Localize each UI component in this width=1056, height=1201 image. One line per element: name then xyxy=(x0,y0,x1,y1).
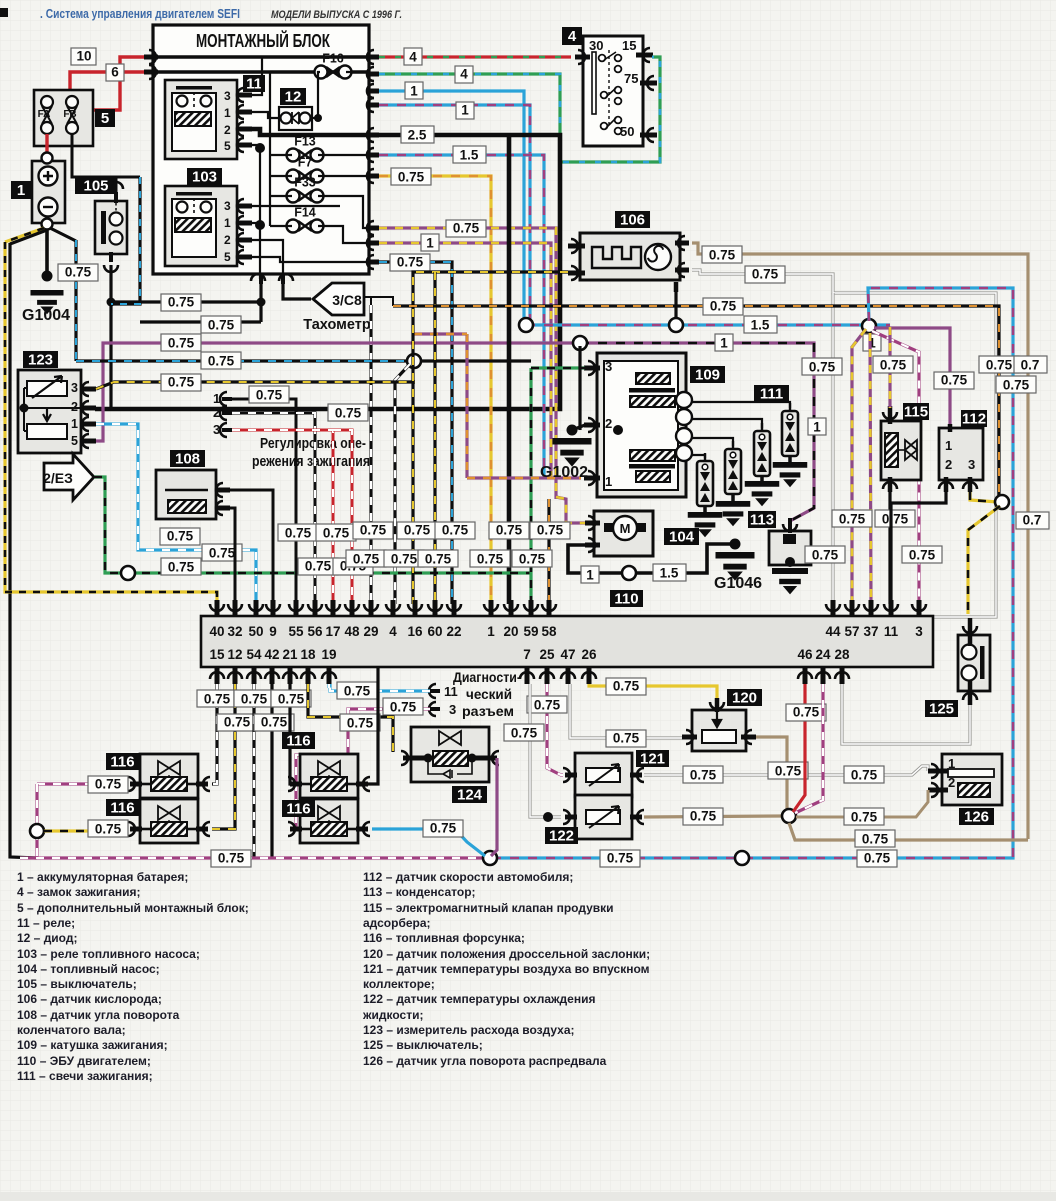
ground G1004 symbol xyxy=(31,290,64,314)
wire pin42 black down xyxy=(270,684,273,858)
fuse F13 xyxy=(287,135,324,162)
fuse FA xyxy=(41,96,53,134)
115 valve symbol xyxy=(905,440,917,460)
wire blue-black horizontal xyxy=(76,359,410,362)
wire 104 bottom loop xyxy=(568,544,731,573)
109 hv terminal 1 xyxy=(676,392,692,408)
label 0.75 above bar 455 xyxy=(435,522,475,539)
svg-text:126 – датчик угла поворота рас: 126 – датчик угла поворота распредвала xyxy=(363,1054,607,1068)
wire purple-yellow block 228 xyxy=(379,228,556,499)
svg-text:. Система управления двигателе: . Система управления двигателем SEFI xyxy=(40,6,240,21)
fuse F16 xyxy=(315,52,352,79)
wire purple-white bottom xyxy=(20,856,483,859)
106 bottom pin stub xyxy=(674,282,679,292)
label 0.75 yellow 120 xyxy=(606,678,646,695)
speed sensor 112 box xyxy=(939,428,983,480)
svg-text:108 – датчик угла поворота: 108 – датчик угла поворота xyxy=(17,1008,180,1022)
wire F33 left xyxy=(270,195,292,197)
svg-text:1.5: 1.5 xyxy=(751,318,770,333)
ground 113 symbol xyxy=(772,568,808,594)
wire green-black to 109 pin3 xyxy=(531,366,585,369)
svg-text:3: 3 xyxy=(224,89,231,103)
wire 106 white out xyxy=(692,270,996,617)
label 125 xyxy=(925,700,958,718)
wire 126 pin2 brown link xyxy=(796,790,928,817)
svg-text:105: 105 xyxy=(83,178,108,195)
ignition coil 109 box xyxy=(597,353,686,497)
svg-text:126: 126 xyxy=(964,809,989,826)
wire pin58 black-orange xyxy=(547,499,550,604)
svg-text:4 – замок зажигания;: 4 – замок зажигания; xyxy=(17,885,141,899)
arrow through 123 resistor xyxy=(32,376,62,398)
svg-text:4: 4 xyxy=(409,50,417,65)
resistor in 123 lower xyxy=(27,424,67,439)
label 0.75 121 right b xyxy=(768,762,808,779)
spark plug 4 xyxy=(782,403,798,462)
wire pin18 black-yellow to 124 xyxy=(308,684,393,752)
svg-text:1: 1 xyxy=(586,568,594,583)
svg-text:116 – топливная форсунка;: 116 – топливная форсунка; xyxy=(363,931,525,945)
svg-text:адсорбера;: адсорбера; xyxy=(363,916,431,930)
label 0.75 white 120 xyxy=(606,730,646,747)
svg-text:2: 2 xyxy=(224,123,231,137)
svg-text:104: 104 xyxy=(669,529,695,546)
label 0.75 122 right a xyxy=(683,808,723,825)
svg-text:116: 116 xyxy=(110,800,134,817)
svg-text:0.75: 0.75 xyxy=(305,559,332,574)
svg-text:59: 59 xyxy=(523,624,538,639)
wire 109pin1 right xyxy=(467,476,581,479)
svg-text:21: 21 xyxy=(282,647,298,662)
oxygen sensor 106 box xyxy=(580,233,680,280)
wire 1 blue-purple xyxy=(379,105,530,325)
svg-text:G1046: G1046 xyxy=(714,575,762,592)
label 123 xyxy=(23,351,58,369)
svg-text:0.75: 0.75 xyxy=(477,552,504,567)
junction sensors right xyxy=(782,809,796,823)
123 internal left rail xyxy=(24,388,27,431)
126 upper element xyxy=(948,769,994,777)
wire coil to plug2 xyxy=(692,438,733,446)
svg-text:Тахометр: Тахометр xyxy=(303,317,371,333)
svg-text:F14: F14 xyxy=(294,206,316,220)
label 124 xyxy=(452,786,487,804)
wire 106 bottom pin drop xyxy=(674,290,677,321)
svg-text:1.5: 1.5 xyxy=(460,148,479,163)
label 108 xyxy=(170,450,205,468)
svg-text:0.75: 0.75 xyxy=(209,546,236,561)
wire 108 lower to pin32 xyxy=(230,508,235,604)
purge valve 115 box xyxy=(881,421,921,480)
relay K11 box xyxy=(165,80,237,159)
junction G1002 xyxy=(567,425,578,436)
label 1.5 pump xyxy=(653,564,686,581)
junction 113 bottom xyxy=(785,557,795,567)
svg-text:0.75: 0.75 xyxy=(613,679,640,694)
svg-text:0.75: 0.75 xyxy=(864,851,891,866)
svg-text:121 – датчик температуры возду: 121 – датчик температуры воздуха во впус… xyxy=(363,962,650,976)
svg-text:0.75: 0.75 xyxy=(168,295,195,310)
svg-text:1: 1 xyxy=(487,624,495,639)
valve 124 box xyxy=(411,727,489,782)
svg-text:1: 1 xyxy=(945,438,952,453)
svg-text:0.75: 0.75 xyxy=(709,248,736,263)
svg-text:112 – датчик скорости автомоби: 112 – датчик скорости автомобиля; xyxy=(363,870,573,884)
svg-text:109: 109 xyxy=(695,367,720,384)
spark plug 2 xyxy=(725,441,741,501)
svg-text:11 – реле;: 11 – реле; xyxy=(17,916,75,930)
svg-text:113 – конденсатор;: 113 – конденсатор; xyxy=(363,885,476,899)
battery box xyxy=(32,161,65,223)
label 0.75 above bar 490 xyxy=(470,550,510,567)
svg-text:0.7: 0.7 xyxy=(1021,358,1040,373)
svg-text:111 – свечи зажигания;: 111 – свечи зажигания; xyxy=(17,1069,153,1083)
wire FA to battery xyxy=(45,134,48,162)
ground G1002 symbol xyxy=(553,438,592,467)
label 116 D xyxy=(282,800,315,818)
svg-text:48: 48 xyxy=(344,624,360,639)
wire 121 right white-purple xyxy=(644,766,928,775)
wire F14 out xyxy=(318,226,370,243)
label 116 C xyxy=(282,732,315,750)
svg-text:М: М xyxy=(620,521,631,536)
wire 1 blue xyxy=(379,91,526,325)
label 116 B xyxy=(106,799,139,817)
junction G1046 xyxy=(730,539,741,550)
svg-text:12: 12 xyxy=(285,89,302,106)
junction relay11 pin5 xyxy=(255,143,265,153)
label 0.75 injA xyxy=(88,776,128,793)
svg-text:0.75: 0.75 xyxy=(909,548,936,563)
svg-text:0.75: 0.75 xyxy=(256,388,283,403)
svg-text:4: 4 xyxy=(568,28,577,45)
svg-text:11: 11 xyxy=(246,76,262,93)
label 0.75 conn1 xyxy=(249,386,289,403)
label 0.75 brown 106 xyxy=(702,246,742,263)
wire inter-relay riser xyxy=(259,148,261,225)
svg-text:15: 15 xyxy=(209,647,225,662)
svg-text:22: 22 xyxy=(446,624,461,639)
wire fan to pin57 xyxy=(852,329,866,604)
svg-text:0.75: 0.75 xyxy=(607,851,634,866)
wire tach thin out xyxy=(364,297,371,310)
label 112 xyxy=(961,410,987,428)
wire relay11 pin3 riser xyxy=(252,57,262,95)
wire 6 red feed xyxy=(70,72,144,92)
svg-text:58: 58 xyxy=(541,624,557,639)
wire F column riser xyxy=(269,71,271,226)
svg-text:103 – реле топливного насоса;: 103 – реле топливного насоса; xyxy=(17,947,200,961)
ECU bottom pins row xyxy=(209,647,850,684)
svg-text:0.7: 0.7 xyxy=(1023,513,1042,528)
svg-text:0.75: 0.75 xyxy=(690,809,717,824)
svg-text:40: 40 xyxy=(209,624,224,639)
svg-text:120: 120 xyxy=(732,690,757,707)
svg-text:5: 5 xyxy=(71,434,78,448)
svg-text:105 – выключатель;: 105 – выключатель; xyxy=(17,977,137,991)
label 0.75 right cyan xyxy=(996,376,1036,393)
svg-text:3: 3 xyxy=(605,359,612,374)
wire sensors junction down xyxy=(789,823,1028,840)
svg-text:1: 1 xyxy=(17,182,25,199)
label 4 switch xyxy=(562,27,582,45)
svg-text:0.75: 0.75 xyxy=(425,552,452,567)
svg-text:F33: F33 xyxy=(294,176,316,190)
svg-text:1: 1 xyxy=(410,84,418,99)
fuel injector 116 B xyxy=(128,799,210,843)
svg-text:46: 46 xyxy=(797,647,813,662)
svg-text:115: 115 xyxy=(904,404,928,421)
label 0.75 above bar 550 xyxy=(530,522,570,539)
label 0.75 above bar 509 xyxy=(489,522,529,539)
junction yellow left xyxy=(30,824,44,838)
wire node to pin4 xyxy=(395,364,410,604)
svg-text:0.75: 0.75 xyxy=(168,336,195,351)
label 1 blue xyxy=(405,82,423,99)
svg-text:0.75: 0.75 xyxy=(167,529,194,544)
svg-text:0.75: 0.75 xyxy=(218,851,245,866)
104 motor M xyxy=(604,516,646,540)
label 113 xyxy=(748,511,776,529)
109 winding 1 xyxy=(636,373,670,384)
svg-text:28: 28 xyxy=(834,647,850,662)
label 0.75 yellow xyxy=(391,168,431,185)
spark plug 3 xyxy=(754,423,770,481)
label 4 red xyxy=(404,48,422,65)
wire 0.75 yellow pin1 xyxy=(379,176,491,604)
wire battery to ground G1004 xyxy=(45,229,49,280)
label 0.75 pin57 v xyxy=(832,510,872,527)
label 0.75 pin18 xyxy=(340,714,380,731)
wire battery diag to yellow edge xyxy=(5,228,44,242)
label 0.75 115 top xyxy=(873,356,913,373)
109 hv terminal 3 xyxy=(676,428,692,444)
svg-text:56: 56 xyxy=(307,624,323,639)
label 0.75 purple-white xyxy=(446,220,486,237)
label 0.7 brown low xyxy=(1016,512,1049,529)
svg-text:0.75: 0.75 xyxy=(404,523,431,538)
wire black-yellow 123pin3 xyxy=(96,382,415,389)
wire 109 pin2 link xyxy=(572,425,585,430)
svg-text:1: 1 xyxy=(71,417,78,431)
svg-text:12 – диод;: 12 – диод; xyxy=(17,931,77,945)
wire 105 bottom to bus xyxy=(109,265,112,409)
124 coil hatched xyxy=(433,751,468,766)
svg-text:0.75: 0.75 xyxy=(986,358,1013,373)
svg-text:F7: F7 xyxy=(298,156,313,170)
svg-text:113: 113 xyxy=(750,512,774,529)
svg-text:0.75: 0.75 xyxy=(278,692,305,707)
air temp sensor 121 xyxy=(563,753,644,797)
label 0.75 float xyxy=(160,528,200,545)
junction switch50 xyxy=(669,318,683,332)
ignition switch 4 box xyxy=(583,36,643,146)
svg-text:37: 37 xyxy=(863,624,878,639)
svg-text:0.75: 0.75 xyxy=(390,700,417,715)
svg-text:116: 116 xyxy=(286,801,310,818)
relay label 103 xyxy=(187,168,222,186)
legend text xyxy=(17,870,650,1083)
fuel injector 116 D xyxy=(288,799,370,843)
label 0.75 bus1 xyxy=(161,294,201,311)
svg-text:0.75: 0.75 xyxy=(323,526,350,541)
106 lambda circle xyxy=(645,244,671,270)
switch internals xyxy=(592,50,621,134)
wire pin60 riser xyxy=(433,272,436,604)
svg-text:1: 1 xyxy=(461,103,469,118)
junction fan xyxy=(862,319,876,333)
label 0.75 pin25 xyxy=(527,696,567,713)
svg-text:0.75: 0.75 xyxy=(347,716,374,731)
svg-text:19: 19 xyxy=(321,647,336,662)
junction exitA bus xyxy=(257,298,266,307)
ECU top pins row xyxy=(209,600,926,639)
svg-text:5: 5 xyxy=(101,110,109,127)
junction bottom xyxy=(483,851,497,865)
124 left dot xyxy=(424,754,433,763)
svg-text:0.75: 0.75 xyxy=(95,777,122,792)
wire F16 out xyxy=(346,71,370,73)
wire 112 pin2 black to pin11 xyxy=(891,492,946,604)
label 1 battery xyxy=(11,181,31,199)
throttle sensor 120 box xyxy=(692,710,746,751)
svg-text:123 – измеритель расхода возду: 123 – измеритель расхода воздуха; xyxy=(363,1023,575,1037)
svg-text:0.75: 0.75 xyxy=(1003,378,1030,393)
wire injD right cyan xyxy=(372,829,485,856)
svg-text:124: 124 xyxy=(457,787,483,804)
svg-text:2: 2 xyxy=(945,457,952,472)
svg-text:0.75: 0.75 xyxy=(360,523,387,538)
wire 2.5 black xyxy=(95,135,560,409)
126 coil hatched xyxy=(958,783,990,797)
label 0.75 126 pin2 xyxy=(844,808,884,825)
svg-text:0.75: 0.75 xyxy=(353,552,380,567)
svg-text:ческий: ческий xyxy=(466,686,512,702)
wire pin15 white-black to injA xyxy=(212,684,217,784)
label 121 xyxy=(636,750,669,768)
junction purple 113 xyxy=(573,336,587,350)
svg-text:110: 110 xyxy=(614,591,638,608)
junction blue left xyxy=(519,318,533,332)
svg-text:42: 42 xyxy=(264,647,279,662)
svg-text:F16: F16 xyxy=(322,52,344,66)
fuel injector 116 C xyxy=(288,754,370,798)
fuse FB xyxy=(66,96,78,134)
svg-text:60: 60 xyxy=(427,624,442,639)
109 winding 4 xyxy=(636,471,670,482)
109 bar lower xyxy=(629,464,675,469)
label 0.75 above bar 318 xyxy=(298,558,338,575)
svg-text:11: 11 xyxy=(444,684,458,699)
svg-text:0.75: 0.75 xyxy=(941,373,968,388)
svg-text:0.75: 0.75 xyxy=(391,552,418,567)
wire F33 out xyxy=(318,196,370,228)
wire relay103 pin5 exit xyxy=(252,257,370,262)
svg-text:2: 2 xyxy=(605,416,612,431)
svg-text:жидкости;: жидкости; xyxy=(362,1008,423,1022)
wire pin46 red xyxy=(793,684,805,812)
fuse F7 xyxy=(287,156,324,183)
svg-text:12: 12 xyxy=(227,647,242,662)
svg-text:1: 1 xyxy=(813,420,821,435)
wire pin28 white to 125 xyxy=(842,684,970,744)
label 0.75 purple 112 xyxy=(934,372,974,389)
svg-text:0.75: 0.75 xyxy=(453,221,480,236)
label 0.75 pin15 xyxy=(197,690,237,707)
svg-text:0.75: 0.75 xyxy=(851,768,878,783)
junction 122 left xyxy=(543,812,553,822)
svg-text:разъем: разъем xyxy=(462,703,514,719)
svg-text:32: 32 xyxy=(227,624,242,639)
wire coil to plug4 xyxy=(692,402,790,408)
wire F7 out 0.75 xyxy=(318,175,370,177)
label 2.5 xyxy=(401,126,434,143)
wire conn3 redwhite to pin17 xyxy=(232,430,333,604)
condenser 113 box xyxy=(769,531,811,565)
label 1 orange xyxy=(421,234,439,251)
wire fan to 112 xyxy=(874,328,950,424)
svg-text:FA: FA xyxy=(38,109,51,120)
svg-text:10: 10 xyxy=(76,49,91,64)
svg-text:0.75: 0.75 xyxy=(65,265,92,280)
svg-text:24: 24 xyxy=(815,647,831,662)
wire conn1 to pin55 xyxy=(232,399,296,604)
label 1 fan xyxy=(863,334,881,351)
svg-text:FB: FB xyxy=(63,109,76,120)
svg-text:109 – катушка зажигания;: 109 – катушка зажигания; xyxy=(17,1038,168,1052)
wire injC right up xyxy=(367,667,378,784)
svg-text:2: 2 xyxy=(224,233,231,247)
svg-text:25: 25 xyxy=(539,647,555,662)
wire fan to pin3 xyxy=(872,331,919,604)
label 1 blue-purple xyxy=(456,102,474,119)
wire 4 green switch15 loop xyxy=(379,57,660,162)
svg-text:15: 15 xyxy=(622,38,636,53)
label 6 xyxy=(106,64,124,81)
svg-text:0.75: 0.75 xyxy=(204,692,231,707)
wire 109 pin2 ground xyxy=(578,346,581,430)
svg-text:0.75: 0.75 xyxy=(208,354,235,369)
label 110 xyxy=(610,590,643,608)
svg-text:3: 3 xyxy=(968,457,975,472)
svg-text:1: 1 xyxy=(224,216,231,230)
label 120 xyxy=(727,689,762,707)
battery bottom terminal xyxy=(42,219,53,230)
label 0.75 purple h xyxy=(161,334,201,351)
svg-text:44: 44 xyxy=(825,624,841,639)
wire 105 top link xyxy=(115,177,118,192)
wire bus 10 inside block xyxy=(153,55,370,58)
wire 112 pin3 yellow-black xyxy=(970,492,998,502)
label 0.75 orangeblack xyxy=(703,298,743,315)
label 0.75 white pin44 xyxy=(802,358,842,375)
label 0.75 above bar 353 xyxy=(333,558,373,575)
svg-text:0.75: 0.75 xyxy=(397,255,424,270)
relay K103 box xyxy=(165,186,237,266)
svg-text:0.75: 0.75 xyxy=(430,821,457,836)
label 111 xyxy=(754,385,789,403)
wire conn2 to pin56 xyxy=(232,413,315,604)
svg-text:123: 123 xyxy=(28,352,53,369)
svg-text:5: 5 xyxy=(224,250,231,264)
wire F7 left xyxy=(270,175,292,177)
wire 124 right purple xyxy=(491,758,497,856)
wire diag3 purple-white xyxy=(292,709,430,829)
wire pin20 drop xyxy=(507,135,512,604)
label 5 xyxy=(95,109,115,127)
svg-text:0.75: 0.75 xyxy=(882,512,909,527)
wire coil to plug3 xyxy=(692,419,762,428)
